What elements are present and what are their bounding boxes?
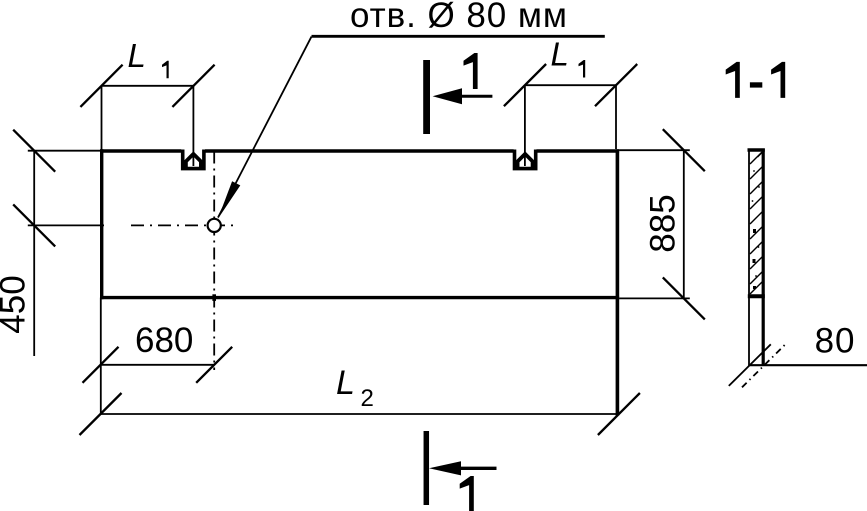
dimension 450 tick top — [13, 130, 55, 172]
dimension 680 tick right — [196, 347, 232, 383]
svg-text:2: 2 — [361, 385, 374, 412]
hole horizontal center line dash-dot part — [131, 224, 235, 226]
plate left edge extension below ground — [100, 298, 102, 415]
section cut 1 bottom arrow tail — [447, 467, 497, 470]
plate left edge — [100, 149, 103, 299]
svg-text:L: L — [336, 364, 355, 402]
hole D80 — [208, 219, 221, 232]
lifting loop 1 — [186, 154, 201, 168]
section 80 dimension line — [749, 364, 867, 366]
plate top edge right segment — [537, 149, 620, 153]
section cut 1 top arrowhead — [433, 88, 462, 104]
dimension 885 line — [683, 150, 685, 298]
svg-text:885: 885 — [643, 194, 682, 252]
section cut 1 bottom arrowhead — [429, 461, 461, 475]
lifting loop recess 1 — [183, 150, 204, 169]
leader shelf — [312, 35, 605, 38]
dimension 450 extension top — [28, 150, 102, 152]
dimension L1 right tick right — [595, 64, 637, 106]
section view right edge — [762, 149, 765, 366]
section cut 1 top arrow tail — [447, 95, 492, 98]
section view ground divider — [748, 294, 765, 298]
dimension L1 right dimension line — [525, 84, 616, 86]
leader arrowhead — [218, 181, 240, 219]
plate ground line (thick bottom of wall) — [100, 296, 619, 299]
dimension L2 tick left — [80, 393, 122, 435]
hole vertical center line — [213, 152, 215, 371]
section label 1 bottom — [460, 476, 474, 511]
section view top cap — [748, 148, 765, 151]
dimension 680 line — [101, 364, 215, 366]
dimension L2 tick right — [598, 393, 640, 435]
dimension L1 left extension line left — [101, 86, 103, 150]
dimension 885 tick top — [663, 129, 705, 171]
dimension 885 tick bottom — [663, 277, 705, 319]
svg-text:L: L — [551, 36, 569, 73]
section cut 1 bottom trace — [424, 431, 430, 505]
section view left edge — [748, 149, 750, 366]
plate top edge left segment — [100, 149, 181, 153]
section 80 solid slash — [729, 344, 771, 386]
dimension L1 left tick right — [172, 65, 214, 107]
section label 1 top — [464, 53, 478, 89]
dimension 680 tick left — [83, 347, 119, 383]
dimension L1 right extension line left — [524, 85, 526, 166]
section title 1-1 — [726, 62, 740, 98]
plate top edge middle segment — [205, 149, 514, 153]
dimension 885 extension top — [619, 149, 690, 151]
dimension L2 line — [101, 413, 619, 415]
svg-text:отв. Ø 80 мм: отв. Ø 80 мм — [350, 0, 568, 35]
svg-text:680: 680 — [135, 321, 193, 360]
dimension L1 left tick left — [80, 65, 122, 107]
dimension L1 right extension line right — [615, 85, 617, 149]
section cut 1 top trace — [423, 60, 430, 134]
svg-text:L: L — [128, 37, 146, 74]
lifting loop recess 2 — [515, 150, 536, 169]
center line junction dot at ground line — [212, 294, 216, 301]
dimension L1 left dimension line — [102, 85, 194, 87]
section view hatch — [750, 152, 762, 294]
leader slanted line — [218, 37, 312, 218]
section 80 dash-dot slash — [742, 344, 786, 388]
dimension 450 line — [33, 151, 35, 356]
svg-text:80: 80 — [815, 322, 856, 361]
dimension L1 right tick left — [504, 64, 546, 106]
dimension L1 left extension line right — [192, 86, 194, 166]
dimension 885 extension bottom — [619, 297, 690, 299]
hole horizontal center line solid part — [28, 224, 104, 226]
lifting loop 2 — [518, 154, 533, 168]
dimension 450 tick bottom — [13, 204, 55, 246]
section view concrete specks — [752, 170, 760, 289]
plate right edge — [616, 149, 620, 415]
svg-text:450: 450 — [0, 275, 33, 333]
